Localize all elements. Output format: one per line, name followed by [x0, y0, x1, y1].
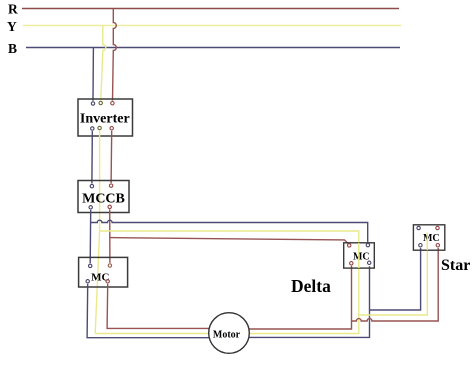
svg-text:Motor: Motor	[213, 330, 241, 341]
wire red branch to star MC (hops over yellow and blue)	[352, 248, 439, 321]
svg-text:MC: MC	[91, 271, 109, 283]
wire yellow bus to delta	[100, 231, 359, 334]
node Star label	[441, 257, 470, 274]
wire Y tap to inverter (hop over B)	[101, 26, 106, 101]
inverter input terminal pin red	[111, 102, 114, 105]
main MC output terminal pin red	[106, 280, 109, 283]
star MC top terminal pin right	[436, 226, 439, 229]
wire yellow inside star MC box	[426, 233, 428, 250]
inverter input terminal pin blue	[91, 102, 94, 105]
star MC bottom terminal pin blue	[419, 244, 422, 247]
svg-text:MCCB: MCCB	[82, 191, 125, 206]
motor M1	[209, 313, 250, 354]
svg-text:R: R	[8, 2, 18, 17]
wire inverter to MCCB and bus yellow	[99, 131, 101, 231]
wire main MC to motor red	[107, 284, 209, 329]
wire yellow branch to star MC	[359, 233, 428, 316]
MCCB input terminal pin blue	[90, 184, 93, 187]
inverter output terminal pin yellow	[98, 126, 101, 129]
wire blue bus to delta (hops over yellow and red)	[91, 220, 368, 242]
wire inverter to MCCB red	[110, 131, 113, 183]
MCCB input terminal pin red	[109, 184, 112, 187]
inverter input terminal pin yellow	[99, 101, 102, 104]
svg-text:Inverter: Inverter	[80, 112, 130, 127]
wire motor to delta red (right side)	[249, 266, 351, 329]
star MC bottom terminal pin red	[436, 244, 439, 247]
MCCB box	[78, 181, 129, 213]
node Delta label	[291, 276, 331, 296]
inverter output terminal pin red	[110, 127, 113, 130]
wire blue branch to star MC	[370, 248, 421, 310]
node B phase label	[8, 41, 17, 56]
star MC top terminal pin left	[417, 226, 420, 229]
wire yellow through delta MC box	[358, 243, 360, 268]
inverter output terminal pin blue	[91, 127, 94, 130]
node R phase label	[8, 2, 18, 17]
delta MC input terminal pin blue	[366, 243, 369, 246]
svg-text:Delta: Delta	[291, 276, 331, 296]
wire B tap to inverter	[92, 48, 94, 101]
wire B phase line	[26, 47, 400, 49]
svg-text:B: B	[8, 41, 17, 56]
wire inverter to MCCB blue	[91, 131, 93, 183]
wire R tap to inverter (hops over Y and B)	[113, 9, 117, 101]
node Y phase label	[7, 19, 17, 34]
delta MC contactor box	[344, 243, 375, 268]
main MC output terminal pin blue	[86, 280, 89, 283]
inverter U1 box	[78, 99, 133, 136]
wire yellow bottom corner to motor	[95, 333, 209, 335]
svg-text:MC: MC	[423, 233, 440, 244]
svg-text:MC: MC	[353, 251, 370, 262]
main MC input terminal pin red	[108, 264, 111, 267]
delta MC input terminal pin red	[348, 244, 351, 247]
wire R phase line	[22, 8, 399, 10]
wire motor to delta blue (right side)	[249, 266, 369, 337]
main MC input terminal pin blue	[89, 264, 92, 267]
star MC contactor box	[413, 225, 444, 250]
wire MCCB to main MC red	[109, 210, 111, 263]
wire red bus to delta	[110, 238, 348, 244]
wire yellow through main MC down to bottom corner	[95, 231, 99, 334]
wire Y phase line	[23, 25, 401, 27]
main MC contactor box	[79, 257, 128, 287]
delta MC output terminal pin red	[350, 262, 353, 265]
delta MC output terminal pin blue	[368, 261, 371, 264]
wire MCCB to main MC blue	[89, 210, 92, 263]
wire main MC to motor blue	[87, 284, 249, 338]
MCCB output terminal pin red	[108, 205, 111, 208]
MCCB output terminal pin blue	[89, 206, 92, 209]
svg-text:Star: Star	[441, 257, 470, 274]
svg-text:Y: Y	[7, 19, 17, 34]
